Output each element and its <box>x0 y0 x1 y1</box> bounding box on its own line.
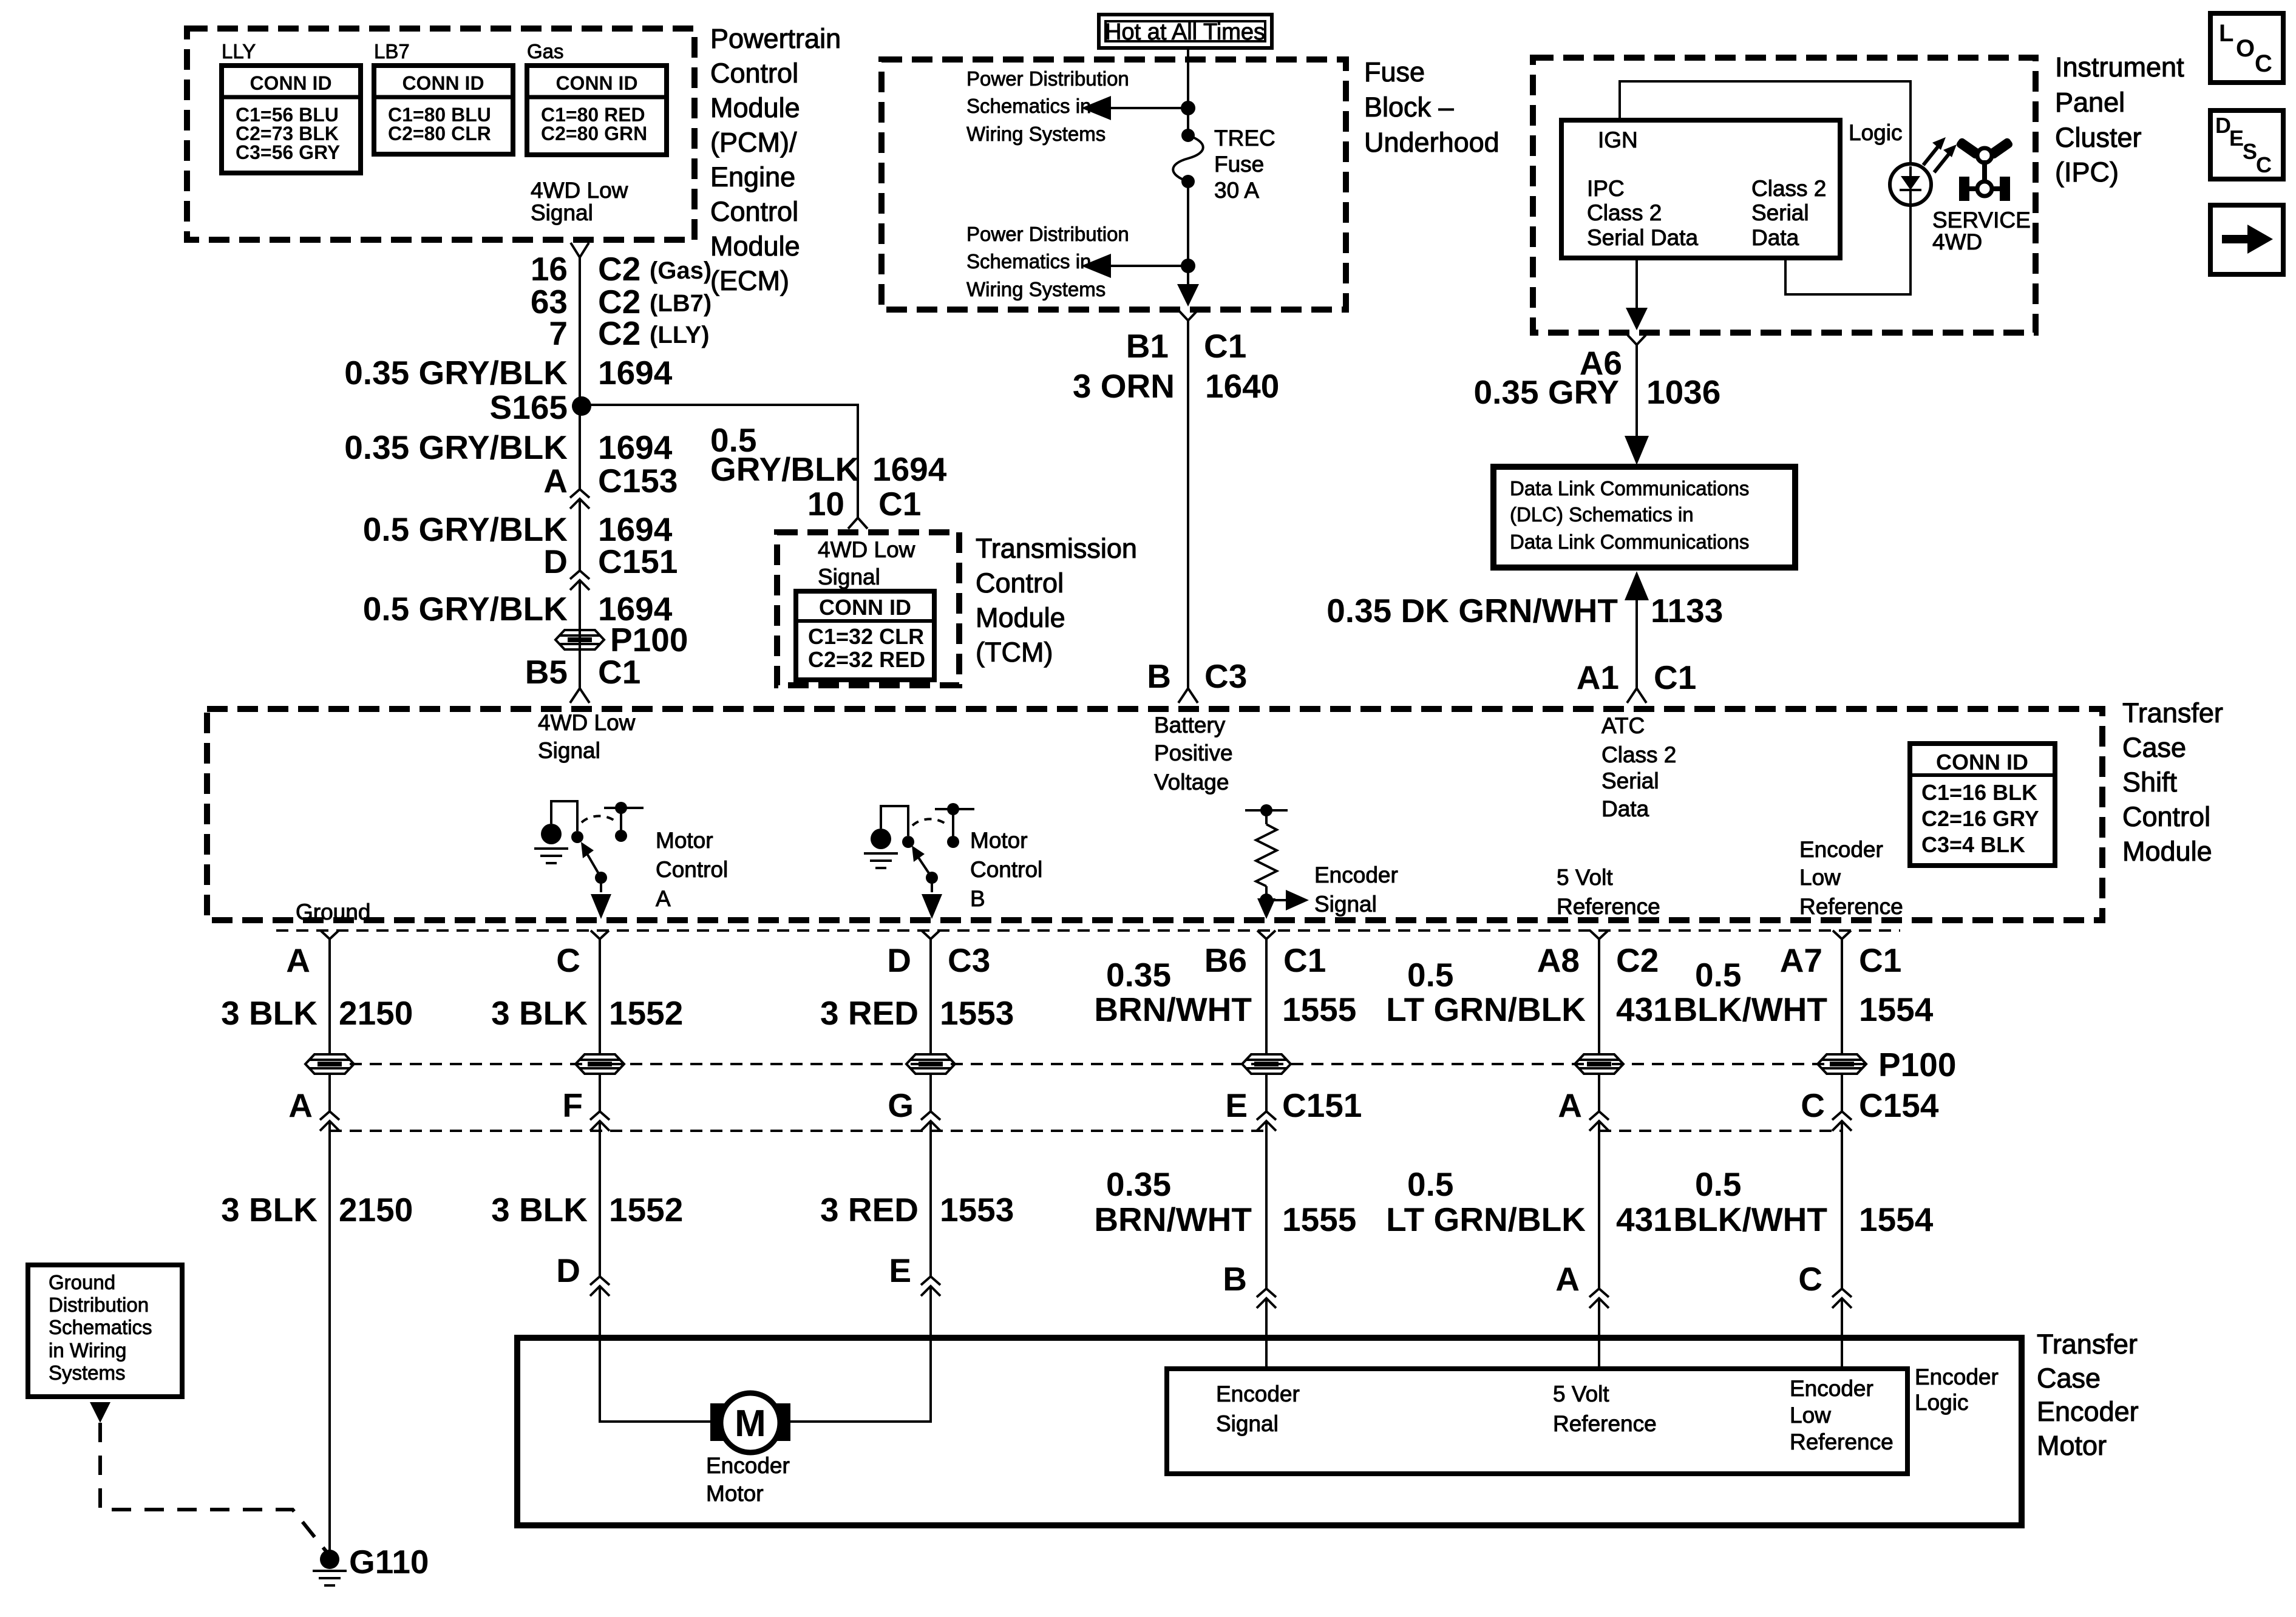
svg-text:C1=32 CLR: C1=32 CLR <box>808 624 924 649</box>
svg-text:SERVICE: SERVICE <box>1932 208 2031 232</box>
svg-text:C: C <box>1801 1086 1825 1124</box>
svg-text:IPC: IPC <box>1587 176 1625 201</box>
svg-text:C3=4 BLK: C3=4 BLK <box>1921 832 2025 857</box>
svg-text:Signal: Signal <box>1314 892 1377 917</box>
svg-text:(TCM): (TCM) <box>976 637 1053 668</box>
in-line connector C153 <box>570 489 589 509</box>
svg-text:Positive: Positive <box>1154 741 1233 765</box>
wire IPC serial data down <box>1635 258 1638 325</box>
svg-text:C1: C1 <box>1654 659 1696 696</box>
Fuse Block - Underhood dashed box <box>881 59 1346 310</box>
svg-text:LT GRN/BLK: LT GRN/BLK <box>1386 1201 1586 1238</box>
svg-text:L: L <box>2219 20 2233 47</box>
svg-text:Module: Module <box>976 602 1065 633</box>
encoder motor M <box>710 1393 790 1453</box>
wire below fuse <box>1187 181 1189 287</box>
wire label 0.5 GRY/BLK 1694 <box>363 510 673 548</box>
wire encoder low ref into box <box>1841 1298 1843 1369</box>
wire label 3 RED 1553 <box>820 994 1014 1032</box>
wire label 0.35 DK GRN/WHT 1133 <box>1326 592 1723 629</box>
svg-text:Data Link Communications: Data Link Communications <box>1510 477 1749 500</box>
svg-text:Encoder: Encoder <box>2037 1396 2139 1427</box>
arrow into DLC box <box>1625 436 1649 465</box>
svg-text:0.5: 0.5 <box>1695 1165 1741 1203</box>
fuse TREC 30A element <box>1173 129 1203 188</box>
svg-text:Schematics in: Schematics in <box>966 95 1091 117</box>
svg-text:G: G <box>888 1086 914 1124</box>
svg-text:1553: 1553 <box>940 994 1014 1032</box>
svg-text:A: A <box>656 886 671 911</box>
svg-text:Voltage: Voltage <box>1154 770 1229 795</box>
pass-through connector row P100 dashed line <box>330 1063 1870 1065</box>
arrow out of DLC box upward <box>1625 571 1649 600</box>
svg-text:Serial: Serial <box>1601 768 1659 793</box>
icon service 4WD drivetrain <box>1955 137 2014 201</box>
svg-text:Encoder: Encoder <box>706 1453 790 1478</box>
label Encoder Signal (logic box) <box>1216 1381 1300 1436</box>
svg-text:Data: Data <box>1751 225 1799 250</box>
svg-text:Class 2: Class 2 <box>1587 200 1662 225</box>
svg-text:0.5 GRY/BLK: 0.5 GRY/BLK <box>363 590 568 628</box>
IGN block <box>1561 120 1840 258</box>
svg-text:C1=16 BLK: C1=16 BLK <box>1921 780 2037 805</box>
svg-text:1552: 1552 <box>609 994 683 1032</box>
Hot at All Times tag <box>1099 15 1272 48</box>
note Power Distribution Schematics in Wiring Systems (upper) <box>966 67 1129 145</box>
svg-text:1554: 1554 <box>1859 991 1934 1028</box>
encoder logic box <box>1167 1369 1907 1474</box>
svg-text:1694: 1694 <box>598 429 673 466</box>
svg-text:Data Link Communications: Data Link Communications <box>1510 531 1749 553</box>
svg-text:Motor: Motor <box>656 828 713 853</box>
pin A8 C2 <box>1537 931 1659 979</box>
svg-text:Engine: Engine <box>710 161 795 192</box>
svg-text:Encoder: Encoder <box>1216 1381 1300 1406</box>
svg-text:B5: B5 <box>525 653 568 691</box>
motor control A switch <box>534 801 644 919</box>
svg-text:Transfer: Transfer <box>2122 697 2223 728</box>
arrow at fuse block exit <box>1177 284 1199 307</box>
connector table LB7 CONN ID <box>374 66 513 154</box>
connector C154 dashed link <box>1599 1130 1842 1132</box>
pass-through connector P100 (col D) <box>906 1054 955 1074</box>
svg-text:Reference: Reference <box>1557 894 1660 919</box>
connector C151 dashed link <box>330 1130 1266 1132</box>
svg-text:0.5: 0.5 <box>1407 956 1453 994</box>
lamp flash arrows <box>1923 137 1957 172</box>
svg-text:Reference: Reference <box>1790 1429 1894 1454</box>
svg-text:Signal: Signal <box>1216 1411 1279 1436</box>
svg-text:Control: Control <box>976 568 1064 598</box>
svg-text:C1: C1 <box>598 653 640 691</box>
svg-text:Control: Control <box>970 857 1042 882</box>
connector table Gas CONN ID <box>527 66 667 155</box>
svg-text:Wiring Systems: Wiring Systems <box>966 278 1106 300</box>
wire label 3 BLK 2150 (lower) <box>221 1191 413 1229</box>
connector chevron at transfer case box <box>570 688 589 703</box>
wire <box>579 580 581 688</box>
svg-text:Shift: Shift <box>2122 767 2178 798</box>
svg-text:Motor: Motor <box>2037 1430 2107 1461</box>
svg-text:Hot at All Times: Hot at All Times <box>1105 19 1265 45</box>
svg-text:Ground: Ground <box>296 900 370 924</box>
pin B6 C1 <box>1204 931 1326 979</box>
svg-text:O: O <box>2236 35 2255 62</box>
wire 5 volt ref into box <box>1598 1298 1600 1369</box>
wire encoder low ref upper <box>1841 939 1843 1055</box>
svg-text:0.35: 0.35 <box>1106 956 1171 994</box>
connector chevron at transfer case box (A1) <box>1627 688 1646 703</box>
svg-text:0.35 GRY/BLK: 0.35 GRY/BLK <box>344 429 568 466</box>
pin labels 16/63/7 C2 <box>531 250 712 288</box>
svg-text:C: C <box>2256 152 2272 177</box>
svg-text:1694: 1694 <box>872 450 947 488</box>
label TREC Fuse 30 A <box>1214 126 1275 203</box>
svg-text:Control: Control <box>710 196 798 227</box>
svg-text:Fuse: Fuse <box>1214 152 1264 177</box>
svg-text:(LLY): (LLY) <box>650 322 710 348</box>
label ATC Class 2 Serial Data <box>1601 713 1676 821</box>
label Battery Positive Voltage <box>1154 713 1233 795</box>
svg-text:Power Distribution: Power Distribution <box>966 223 1129 245</box>
arrow at IPC exit <box>1626 308 1648 330</box>
svg-text:Schematics: Schematics <box>49 1316 152 1338</box>
wire motor B lower <box>929 1121 932 1276</box>
wire label 3 BLK 1552 (lower) <box>491 1191 683 1229</box>
connector pin at PCM box exit <box>571 243 589 257</box>
svg-text:Signal: Signal <box>531 200 593 225</box>
svg-text:Encoder: Encoder <box>1790 1376 1873 1401</box>
svg-text:D: D <box>543 543 568 580</box>
svg-text:Wiring Systems: Wiring Systems <box>966 123 1106 145</box>
label Motor Control A <box>656 828 728 911</box>
svg-text:Encoder: Encoder <box>1799 837 1883 862</box>
pin D C3 <box>887 931 990 979</box>
svg-text:LT GRN/BLK: LT GRN/BLK <box>1386 991 1586 1028</box>
svg-text:BRN/WHT: BRN/WHT <box>1094 991 1252 1028</box>
svg-text:Encoder: Encoder <box>1314 863 1398 887</box>
pass-through connector P100 (col A) <box>305 1054 354 1074</box>
pin C <box>556 931 609 979</box>
pin A7 C1 <box>1780 931 1902 979</box>
svg-text:LLY: LLY <box>222 40 256 63</box>
svg-text:Block –: Block – <box>1364 92 1454 123</box>
svg-text:CONN ID: CONN ID <box>250 72 331 94</box>
wire encoder low ref lower <box>1841 1121 1843 1289</box>
module title Transfer Case Encoder Motor <box>2037 1329 2139 1461</box>
wire motor A mid <box>599 1074 601 1111</box>
svg-text:(PCM)/: (PCM)/ <box>710 127 797 158</box>
svg-text:1553: 1553 <box>940 1191 1014 1229</box>
svg-text:3 BLK: 3 BLK <box>491 1191 588 1229</box>
connector table LLY CONN ID <box>222 66 361 173</box>
wire encoder signal lower <box>1265 1121 1268 1289</box>
svg-text:C2: C2 <box>598 314 640 352</box>
pin B (encoder logic) <box>1223 1260 1276 1308</box>
svg-text:Class 2: Class 2 <box>1751 176 1826 201</box>
svg-text:C3: C3 <box>1204 657 1247 695</box>
reference box LOC <box>2210 13 2283 83</box>
pass-through connector P100 (col B6) <box>1242 1054 1291 1074</box>
svg-text:F: F <box>562 1086 583 1124</box>
svg-text:Distribution: Distribution <box>49 1293 149 1316</box>
pin 10 C1 (TCM) <box>807 485 922 523</box>
pass-through connector P100 (col A7) <box>1818 1054 1866 1074</box>
svg-text:3 ORN: 3 ORN <box>1073 367 1175 405</box>
wire <box>579 499 581 571</box>
svg-text:0.35 GRY/BLK: 0.35 GRY/BLK <box>344 354 568 392</box>
resistor encoder signal <box>1245 804 1309 919</box>
svg-text:0.5 GRY/BLK: 0.5 GRY/BLK <box>363 510 568 548</box>
svg-text:Transfer: Transfer <box>2037 1329 2138 1360</box>
svg-text:Battery: Battery <box>1154 713 1226 737</box>
svg-text:LB7: LB7 <box>374 40 410 63</box>
svg-text:C: C <box>556 941 580 979</box>
Transfer Case Encoder Motor box <box>517 1338 2022 1525</box>
svg-text:1640: 1640 <box>1205 367 1279 405</box>
svg-text:C1: C1 <box>878 485 921 523</box>
svg-text:Signal: Signal <box>538 738 600 763</box>
svg-text:Instrument: Instrument <box>2055 52 2184 83</box>
svg-text:4WD: 4WD <box>1932 229 1982 254</box>
connector table Transfer Case CONN ID <box>1910 744 2055 866</box>
connector chevron at TCM box <box>848 518 868 529</box>
svg-text:3 BLK: 3 BLK <box>221 1191 318 1229</box>
svg-text:B: B <box>1147 657 1171 695</box>
wire S165 branch to TCM <box>582 405 858 518</box>
reference box next arrow <box>2210 205 2283 274</box>
pin A (ground) <box>286 931 339 979</box>
svg-text:C151: C151 <box>1282 1086 1362 1124</box>
svg-text:Low: Low <box>1790 1403 1831 1428</box>
svg-text:Serial: Serial <box>1751 200 1809 225</box>
wire battery feed down <box>1187 320 1189 688</box>
svg-text:C2=80 GRN: C2=80 GRN <box>541 123 647 144</box>
connector C153 pin A <box>543 462 678 500</box>
wire label 0.35 BRN/WHT 1555 <box>1094 956 1356 1028</box>
wire encoder signal mid <box>1265 1074 1268 1111</box>
svg-text:5 Volt: 5 Volt <box>1553 1381 1609 1406</box>
svg-text:Module: Module <box>710 231 800 262</box>
arrow from ground distribution box <box>90 1402 110 1423</box>
svg-text:Logic: Logic <box>1849 120 1902 145</box>
label 4WD Low Signal (TCM) <box>818 537 915 589</box>
svg-text:B: B <box>1223 1260 1247 1298</box>
wire label 0.35 BRN/WHT 1555 (lower) <box>1094 1165 1356 1238</box>
wire encoder signal upper <box>1265 939 1268 1055</box>
module title Transfer Case Shift Control Module <box>2122 697 2223 867</box>
wire label 3 ORN 1640 <box>1073 367 1279 405</box>
svg-text:Fuse: Fuse <box>1364 56 1425 87</box>
module title Transmission Control Module (TCM) <box>976 533 1137 668</box>
svg-text:0.5: 0.5 <box>1407 1165 1453 1203</box>
svg-text:C2=16 GRY: C2=16 GRY <box>1921 806 2039 831</box>
module title Powertrain Control Module (PCM)/ Engine Control Module (ECM) <box>710 23 841 296</box>
wire encoder low ref mid <box>1841 1074 1843 1111</box>
svg-text:M: M <box>735 1403 766 1445</box>
pin B C3 <box>1147 657 1247 695</box>
wire 5 volt ref mid <box>1598 1074 1600 1111</box>
svg-text:C151: C151 <box>598 543 678 580</box>
arrow to power distribution lower <box>1081 254 1188 278</box>
svg-text:431: 431 <box>1616 1201 1672 1238</box>
svg-text:4WD Low: 4WD Low <box>538 710 636 735</box>
connector pin at fuse block exit <box>1179 311 1197 320</box>
wire label 0.5 LT GRN/BLK 431 (lower) <box>1386 1165 1672 1238</box>
svg-text:E: E <box>2229 126 2244 151</box>
svg-text:BLK/WHT: BLK/WHT <box>1673 1201 1827 1238</box>
connector C151 pin D <box>543 543 678 580</box>
svg-text:Systems: Systems <box>49 1361 126 1384</box>
wire motor control B upper <box>929 939 932 1055</box>
svg-text:4WD Low: 4WD Low <box>818 537 915 562</box>
in-line connector C151 <box>570 571 589 590</box>
pin A (C151 row) <box>288 1086 339 1131</box>
wire motor control A upper <box>599 939 601 1055</box>
svg-text:E: E <box>889 1252 911 1289</box>
PCM/ECM module dashed box <box>187 29 695 240</box>
label Motor Control B <box>970 828 1042 911</box>
svg-text:0.5: 0.5 <box>1695 956 1741 994</box>
wire label 0.35 GRY/BLK 1694 <box>344 354 673 392</box>
ground G110 <box>313 1543 429 1585</box>
connector chevron at transfer case box (B) <box>1178 688 1198 703</box>
DLC note box <box>1493 467 1795 568</box>
wire label 0.5 BLK/WHT 1554 (lower) <box>1673 1165 1933 1238</box>
svg-text:Module: Module <box>2122 836 2212 867</box>
svg-text:C2=80 CLR: C2=80 CLR <box>388 123 491 144</box>
arrow to power distribution upper <box>1081 96 1188 120</box>
svg-text:C3: C3 <box>948 941 990 979</box>
junction node upper <box>1181 101 1195 115</box>
label Encoder Low Reference (logic box) <box>1790 1376 1894 1454</box>
svg-text:Module: Module <box>710 92 800 123</box>
wire encoder signal into box <box>1265 1298 1268 1369</box>
pin C C154 <box>1801 1086 1939 1131</box>
reference box DESC <box>2210 110 2283 179</box>
svg-text:C1: C1 <box>1859 941 1901 979</box>
connector pin at IPC exit <box>1628 335 1646 345</box>
svg-text:C3=56 GRY: C3=56 GRY <box>236 141 340 163</box>
svg-text:Motor: Motor <box>706 1481 764 1506</box>
svg-text:C: C <box>2255 50 2272 77</box>
wire ground A lower <box>328 1121 331 1551</box>
svg-text:TREC: TREC <box>1214 126 1275 151</box>
svg-text:BLK/WHT: BLK/WHT <box>1673 991 1827 1028</box>
svg-text:A: A <box>288 1086 313 1124</box>
svg-text:1694: 1694 <box>598 354 673 392</box>
svg-text:Transmission: Transmission <box>976 533 1137 564</box>
svg-text:431: 431 <box>1616 991 1672 1028</box>
svg-text:0.35: 0.35 <box>1106 1165 1171 1203</box>
wire label 0.5 GRY/BLK 1694 <box>363 590 673 628</box>
svg-text:1133: 1133 <box>1651 592 1723 629</box>
svg-text:3 BLK: 3 BLK <box>491 994 588 1032</box>
note Power Distribution Schematics in Wiring Systems (lower) <box>966 223 1129 300</box>
svg-text:Case: Case <box>2037 1363 2101 1394</box>
svg-text:Power Distribution: Power Distribution <box>966 67 1129 90</box>
svg-text:Reference: Reference <box>1553 1411 1657 1436</box>
svg-text:A7: A7 <box>1780 941 1822 979</box>
svg-text:C2: C2 <box>598 250 640 288</box>
svg-text:Low: Low <box>1799 865 1841 890</box>
connector table TCM CONN ID <box>796 591 934 680</box>
svg-text:3 RED: 3 RED <box>820 994 919 1032</box>
svg-text:P100: P100 <box>1878 1046 1956 1083</box>
wire 5 volt ref upper <box>1598 939 1600 1055</box>
wire label 3 BLK 2150 <box>221 994 413 1032</box>
svg-text:Encoder: Encoder <box>1915 1364 1999 1389</box>
wire logic loop <box>1785 203 1911 294</box>
svg-text:1552: 1552 <box>609 1191 683 1229</box>
pass-through connector P100 (col C) <box>576 1054 624 1074</box>
pin A (encoder logic) <box>1555 1260 1609 1308</box>
dashed reference path to G110 <box>100 1423 327 1553</box>
svg-text:10: 10 <box>807 485 844 523</box>
svg-text:Panel: Panel <box>2055 87 2125 118</box>
svg-text:CONN ID: CONN ID <box>819 595 911 620</box>
svg-text:D: D <box>556 1252 580 1289</box>
motor control B switch <box>864 803 974 919</box>
svg-text:0.35 DK GRN/WHT: 0.35 DK GRN/WHT <box>1326 592 1618 629</box>
wire DLC to transfer case <box>1635 592 1638 688</box>
wire fuse feed <box>1187 48 1189 135</box>
svg-text:D: D <box>887 941 911 979</box>
wire motor A into box <box>600 1286 713 1422</box>
label 5 Volt Reference (logic box) <box>1553 1381 1657 1436</box>
wire motor B into box <box>788 1286 931 1422</box>
svg-text:in Wiring: in Wiring <box>49 1339 126 1361</box>
svg-text:S: S <box>2243 139 2257 164</box>
module title Fuse Block - Underhood <box>1364 56 1500 158</box>
svg-text:30 A: 30 A <box>1214 178 1259 203</box>
label 4WD Low Signal (transfer case) <box>538 710 636 763</box>
svg-text:Case: Case <box>2122 732 2186 763</box>
wire motor A lower <box>599 1121 601 1276</box>
wire 5 volt ref lower <box>1598 1121 1600 1289</box>
connector row dashed line under module <box>276 929 1900 932</box>
svg-text:3 RED: 3 RED <box>820 1191 919 1229</box>
svg-text:2150: 2150 <box>339 1191 413 1229</box>
svg-text:Control: Control <box>656 857 728 882</box>
svg-text:1036: 1036 <box>1646 373 1720 411</box>
svg-text:C: C <box>1798 1260 1822 1298</box>
svg-text:16: 16 <box>531 250 568 288</box>
svg-text:C2=32 RED: C2=32 RED <box>808 647 925 672</box>
svg-text:7: 7 <box>549 314 568 352</box>
module title Instrument Panel Cluster (IPC) <box>2055 52 2184 188</box>
pin F <box>562 1086 610 1131</box>
indicator lamp SERVICE 4WD <box>1890 164 1931 205</box>
svg-text:C154: C154 <box>1859 1086 1939 1124</box>
Ground Distribution note box <box>28 1265 182 1397</box>
svg-text:C1: C1 <box>1204 327 1246 365</box>
wire A6 to DLC <box>1635 345 1638 449</box>
wire 4WD Low Signal from PCM <box>579 257 581 489</box>
label Class 2 Serial Data <box>1751 176 1826 250</box>
svg-text:E: E <box>1225 1086 1248 1124</box>
svg-text:Serial Data: Serial Data <box>1587 225 1698 250</box>
svg-text:A: A <box>1555 1260 1580 1298</box>
svg-text:IGN: IGN <box>1598 127 1638 152</box>
svg-text:3 BLK: 3 BLK <box>221 994 318 1032</box>
wire label 0.35 GRY/BLK 1694 <box>344 429 673 466</box>
pin D (encoder motor) <box>556 1252 610 1296</box>
wire label 0.5 BLK/WHT 1554 <box>1673 956 1933 1028</box>
wire ground A mid <box>328 1074 331 1111</box>
pin B1 C1 <box>1126 327 1247 365</box>
svg-text:CONN ID: CONN ID <box>402 72 484 94</box>
